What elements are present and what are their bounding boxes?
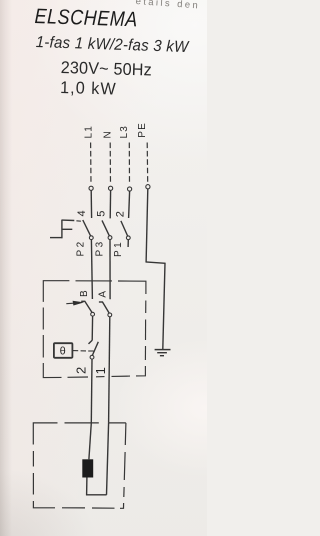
svg-text:P3: P3	[95, 239, 106, 256]
svg-text:2: 2	[114, 211, 126, 217]
svg-text:P1: P1	[113, 240, 124, 257]
svg-text:L1: L1	[83, 125, 94, 139]
svg-text:2: 2	[73, 367, 88, 374]
svg-text:4: 4	[76, 210, 88, 216]
svg-text:θ: θ	[60, 346, 66, 358]
svg-text:N: N	[103, 131, 114, 138]
svg-text:A: A	[97, 291, 108, 298]
svg-text:B: B	[79, 290, 90, 297]
svg-text:L3: L3	[119, 125, 130, 139]
svg-text:5: 5	[96, 211, 108, 217]
svg-text:P2: P2	[76, 239, 87, 256]
svg-text:1: 1	[93, 367, 108, 374]
svg-text:PE: PE	[137, 122, 148, 138]
